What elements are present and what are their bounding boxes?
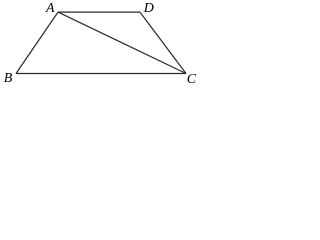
side DC (right edge) bbox=[140, 12, 186, 73]
diagonal AC bbox=[58, 12, 186, 73]
svg-text:B: B bbox=[4, 71, 13, 86]
svg-text:C: C bbox=[187, 72, 197, 86]
svg-text:A: A bbox=[45, 1, 55, 16]
side AD (top edge) bbox=[58, 11, 140, 13]
svg-text:D: D bbox=[143, 1, 154, 16]
side AB (left edge) bbox=[16, 12, 58, 73]
side BC (bottom edge) bbox=[16, 73, 186, 75]
